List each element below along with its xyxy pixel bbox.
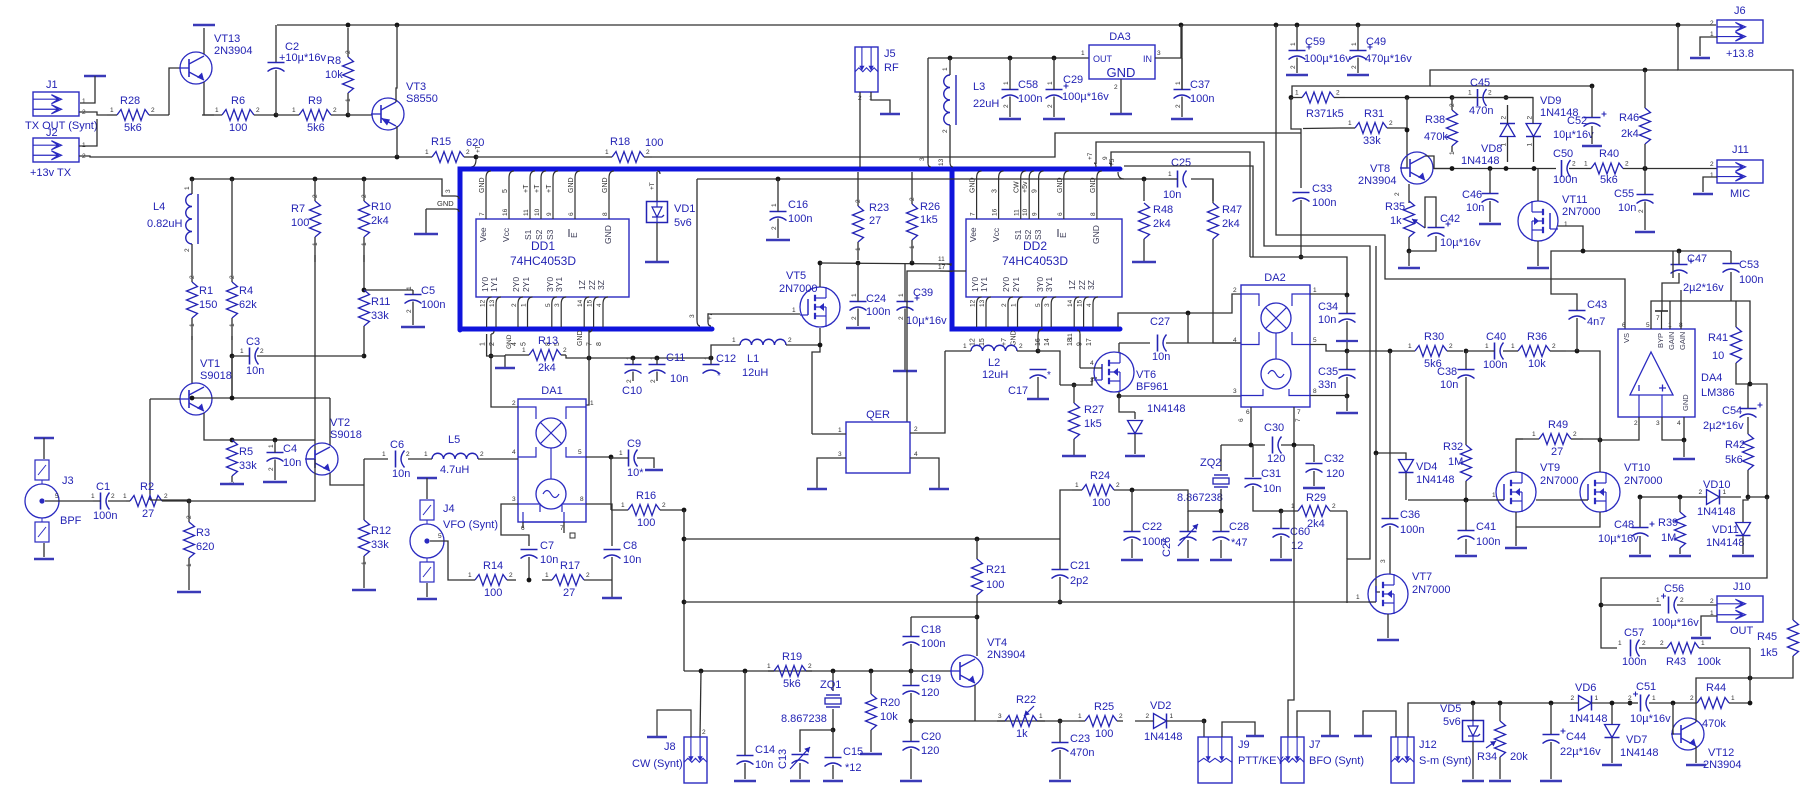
wire C33 down — [1300, 200, 1302, 257]
svg-text:2: 2 — [1642, 640, 1646, 647]
svg-text:1: 1 — [621, 502, 625, 509]
svg-text:S-m (Synt): S-m (Synt) — [1419, 755, 1472, 767]
svg-text:R7: R7 — [291, 203, 305, 215]
DD2 pin 13 number — [979, 299, 986, 307]
ground R3 — [177, 591, 201, 593]
wire R41 top — [1735, 301, 1737, 327]
diode VD3 — [1128, 403, 1186, 434]
label C10 — [622, 385, 642, 397]
svg-text:10µ*16v: 10µ*16v — [906, 315, 947, 327]
pin J8 2 — [702, 729, 706, 736]
resistor R18 — [605, 136, 652, 163]
wire GND into bus left — [426, 208, 455, 210]
wire C20 top — [910, 721, 912, 741]
svg-text:3: 3 — [512, 496, 516, 503]
crystal ZQ2 — [1177, 457, 1229, 504]
svg-text:+7: +7 — [1001, 338, 1008, 346]
svg-text:1: 1 — [851, 293, 858, 297]
ground J4 bottom — [417, 598, 437, 600]
svg-text:5v6: 5v6 — [674, 217, 692, 229]
transistor VT5 — [779, 270, 840, 327]
junction rail179 x=364 — [362, 177, 367, 182]
svg-text:CW (Synt): CW (Synt) — [632, 758, 683, 770]
svg-text:R1: R1 — [199, 285, 213, 297]
wire DA3 IN — [1155, 25, 1181, 58]
svg-text:L3: L3 — [973, 81, 985, 93]
pin C56 1 — [1656, 597, 1660, 604]
svg-text:R38: R38 — [1425, 114, 1445, 126]
svg-text:15: 15 — [587, 299, 594, 307]
svg-text:+T: +T — [534, 184, 541, 193]
svg-text:27: 27 — [563, 587, 575, 599]
label PTT/KEY — [1238, 755, 1285, 767]
wire VT6 source to VD3 — [1119, 396, 1135, 412]
svg-text:10n: 10n — [1152, 351, 1170, 363]
pin J11 1 — [1710, 172, 1714, 179]
svg-text:100µ*16v: 100µ*16v — [1304, 53, 1351, 65]
svg-text:14: 14 — [577, 299, 584, 307]
svg-text:C10: C10 — [622, 385, 642, 397]
svg-text:C31: C31 — [1261, 468, 1281, 480]
trimmer arrow R22 — [1024, 706, 1034, 716]
inductor L4 — [147, 179, 198, 260]
capacitor C58 — [1002, 58, 1043, 117]
pin DA3 1 — [1081, 50, 1085, 57]
svg-text:150: 150 — [199, 299, 217, 311]
diode VD1 zener — [647, 202, 696, 230]
resistor R7 — [291, 179, 321, 262]
net GND R13 — [506, 334, 513, 349]
svg-text:R42: R42 — [1725, 439, 1745, 451]
resistor R34 trimmer — [1495, 721, 1506, 757]
wire rail to R35 area — [1276, 25, 1625, 329]
label J11 — [1732, 144, 1749, 156]
svg-text:2µ2*16v: 2µ2*16v — [1683, 282, 1724, 294]
svg-text:100n: 100n — [1190, 93, 1214, 105]
wire VT1 emitter — [204, 413, 232, 440]
svg-text:2: 2 — [1233, 287, 1237, 294]
junction C47 top — [1677, 249, 1682, 254]
svg-text:8: 8 — [602, 212, 609, 216]
junction mic row x=1534 — [1532, 166, 1537, 171]
ground C37 — [1171, 118, 1193, 120]
diode VD2 — [1135, 700, 1198, 743]
DA4 pin 4 — [1677, 420, 1681, 427]
svg-text:1: 1 — [1710, 172, 1714, 179]
wire J1 pin2 to R28 — [79, 112, 107, 115]
label R43 val — [1697, 656, 1721, 668]
wire C12 to L1 — [711, 345, 722, 358]
pin C6 1 — [382, 451, 386, 458]
svg-text:S3: S3 — [545, 229, 555, 240]
wire C38 down to R32 — [1465, 377, 1467, 445]
svg-text:*: * — [1047, 370, 1051, 381]
wire C30 row — [1221, 444, 1265, 446]
capacitor C33 — [1293, 183, 1337, 209]
junction C33 bottom — [1299, 255, 1304, 260]
junction C52 top — [1590, 84, 1595, 89]
junction L4 top — [190, 177, 195, 182]
wire mute line y602 — [684, 601, 1347, 603]
junction R16 out — [682, 508, 687, 513]
svg-text:100: 100 — [986, 579, 1004, 591]
wire gnd stub — [425, 209, 427, 233]
pin VT6 3 — [1090, 377, 1094, 384]
wire DA4 pin8 stub — [1680, 290, 1682, 329]
junction R11 C3 — [362, 354, 367, 359]
capacitor C21 — [1052, 560, 1091, 587]
svg-text:1: 1 — [468, 572, 472, 579]
junction VD8 top — [1504, 95, 1509, 100]
svg-text:3: 3 — [1157, 50, 1161, 57]
bus DD2 left and bottom — [952, 171, 1120, 329]
capacitor C56 — [1661, 583, 1684, 614]
svg-text:10k: 10k — [1528, 358, 1546, 370]
ground J10 — [1691, 637, 1711, 639]
label R37 value — [1326, 108, 1344, 120]
capacitor C42 — [1428, 222, 1451, 237]
junction VD7 top — [1610, 701, 1615, 706]
svg-text:2: 2 — [646, 149, 650, 156]
capacitor C12 — [703, 353, 737, 374]
junction VD5 top — [1471, 701, 1476, 706]
DD1 net 2 below bus — [489, 342, 496, 346]
wire C2 to node — [275, 70, 277, 115]
svg-text:1Y1: 1Y1 — [979, 277, 989, 292]
svg-text:1: 1 — [1168, 171, 1172, 178]
wire R18 out to mic bias — [652, 133, 1301, 157]
DD2 net 15 below bus — [979, 338, 986, 346]
capacitor C60 — [1273, 526, 1311, 552]
svg-text:2: 2 — [1336, 90, 1340, 97]
svg-text:3: 3 — [689, 314, 696, 318]
label C48 — [1614, 519, 1634, 531]
DA4 pin7 bar terminal — [1655, 311, 1668, 329]
svg-text:VT4: VT4 — [987, 637, 1007, 649]
label TX OUT (Synt) — [25, 120, 98, 132]
wire C36 bottom — [1389, 526, 1391, 574]
transistor VT3 — [371, 81, 438, 130]
svg-text:C21: C21 — [1070, 560, 1090, 572]
svg-text:R15: R15 — [431, 136, 451, 148]
svg-text:1: 1 — [1290, 42, 1297, 46]
DD2 pin 4 number — [1086, 303, 1093, 307]
svg-text:2N7000: 2N7000 — [1540, 475, 1579, 487]
svg-text:J9: J9 — [1238, 739, 1250, 751]
label 5v6 — [1443, 716, 1461, 728]
svg-text:2k4: 2k4 — [1621, 128, 1639, 140]
svg-text:470k: 470k — [1424, 131, 1448, 143]
svg-text:R34: R34 — [1477, 751, 1497, 763]
svg-text:GND: GND — [437, 199, 454, 208]
resistor R31 — [1340, 108, 1407, 147]
junction R6 C2 — [274, 113, 279, 118]
junction pin3 pin4 — [1682, 438, 1687, 443]
svg-text:8.867238: 8.867238 — [1177, 492, 1223, 504]
capacitor C40 — [1466, 331, 1507, 371]
wire C15 bottom — [832, 765, 834, 779]
wire C21 top — [1059, 539, 1061, 569]
svg-text:1: 1 — [1170, 713, 1174, 720]
wire C53 top — [1730, 251, 1732, 263]
wire emitter to C6 — [363, 459, 365, 485]
junction VD6 out — [1628, 701, 1633, 706]
capacitor C41 — [1458, 521, 1501, 548]
svg-text:1: 1 — [425, 149, 429, 156]
capacitor C2 — [268, 41, 327, 72]
wire R39 top — [1679, 497, 1681, 512]
wire C3 to R10 col — [278, 355, 364, 357]
ground C8 R17 — [602, 597, 622, 599]
DA2 pin 6 — [1246, 409, 1250, 416]
capacitor C11 — [649, 352, 689, 385]
svg-text:+13v TX: +13v TX — [30, 167, 72, 179]
svg-text:VT5: VT5 — [786, 270, 806, 282]
wire 13.8 step to R37 — [1292, 70, 1678, 97]
wire R27 top — [1073, 385, 1075, 403]
wire VT8 emitter — [1408, 184, 1410, 203]
svg-text:12: 12 — [480, 299, 487, 307]
label J7 — [1309, 739, 1321, 751]
resistor R25 — [1078, 701, 1123, 740]
svg-text:5: 5 — [438, 533, 442, 540]
net label GND left of bus — [437, 199, 454, 208]
wire VT11 source — [1537, 241, 1539, 266]
pin J5 1 — [869, 95, 873, 102]
diode VD10 — [1686, 479, 1741, 518]
resistor R36 — [1503, 331, 1566, 370]
ground DA4 — [1673, 458, 1695, 460]
ground C9 — [645, 469, 663, 471]
ground C32 — [1303, 487, 1325, 489]
resistor R23 — [853, 172, 890, 260]
svg-text:R22: R22 — [1016, 694, 1036, 706]
net 9 y152 — [1102, 156, 1109, 160]
svg-text:10n: 10n — [392, 468, 410, 480]
svg-text:5v6: 5v6 — [1443, 716, 1461, 728]
svg-text:2: 2 — [1501, 116, 1508, 120]
junction C18 C19 — [909, 669, 914, 674]
DA2 pin 4 — [1233, 337, 1237, 344]
DD2 pin 4 bottom stub — [1093, 297, 1098, 327]
svg-text:GND: GND — [506, 334, 513, 349]
wire DA2 pin1 — [1310, 293, 1347, 295]
junction VD4 tap — [1374, 451, 1379, 456]
label 1N4148 — [1540, 107, 1579, 119]
svg-text:2: 2 — [82, 109, 86, 116]
ground R13 — [495, 367, 515, 369]
resistor R16 — [611, 490, 684, 529]
wire R43 col — [1749, 648, 1751, 704]
connector J5 RF — [855, 47, 899, 92]
svg-text:GND: GND — [602, 177, 609, 193]
svg-text:C40: C40 — [1486, 331, 1506, 343]
ground VT7 — [1377, 639, 1399, 641]
junction L1 VT5 source — [818, 343, 823, 348]
svg-text:100n: 100n — [93, 510, 117, 522]
svg-text:1: 1 — [1011, 303, 1018, 307]
DA4 pin 5 — [1646, 322, 1650, 329]
svg-text:2: 2 — [1394, 192, 1401, 196]
label VD4 — [1416, 461, 1437, 473]
resistor R9 — [276, 95, 348, 134]
wire VD4 top — [1376, 453, 1406, 459]
junction R32 bottom row — [1464, 498, 1469, 503]
svg-text:S3: S3 — [1033, 229, 1043, 240]
wire R37 to C33 — [1291, 98, 1301, 189]
svg-text:5k6: 5k6 — [307, 122, 325, 134]
junction DA1 pin2 R13 row — [489, 354, 494, 359]
capacitor C13 trimmer — [790, 747, 810, 769]
svg-text:2: 2 — [509, 572, 513, 579]
svg-text:BYP: BYP — [1656, 333, 1665, 348]
label J8 — [664, 741, 676, 753]
bus entry 3 x697 — [689, 314, 700, 326]
svg-text:C35: C35 — [1318, 366, 1338, 378]
svg-text:8: 8 — [580, 496, 584, 503]
junction VT12 base — [1671, 701, 1676, 706]
svg-text:2: 2 — [345, 50, 352, 54]
svg-text:1: 1 — [898, 293, 905, 297]
wire pin5 down to R16 — [610, 457, 612, 510]
wire y385 — [1060, 378, 1097, 385]
svg-text:10n: 10n — [755, 759, 773, 771]
wire C19 top — [910, 671, 912, 685]
label C42 val — [1440, 237, 1481, 249]
wire L3 down — [949, 130, 951, 162]
wire J8 col — [700, 671, 701, 737]
wire pin17 col down — [906, 272, 908, 422]
svg-text:C51: C51 — [1636, 681, 1656, 693]
wire C44 top — [1550, 703, 1552, 734]
wire C14 bottom — [744, 763, 746, 779]
bus entry DA1 pin2 — [491, 331, 494, 334]
wire VT2 emitter — [330, 473, 364, 485]
capacitor C34 — [1318, 301, 1356, 326]
resistor R46 — [1619, 108, 1651, 144]
svg-text:1N4148: 1N4148 — [1620, 747, 1659, 759]
svg-text:S9018: S9018 — [200, 370, 232, 382]
junction C48 top — [1638, 495, 1643, 500]
svg-text:R27: R27 — [1084, 404, 1104, 416]
svg-text:1: 1 — [521, 303, 528, 307]
net 11 DD2 left — [938, 256, 945, 263]
DD1 pin 2 number — [511, 303, 518, 307]
wire R37 out — [1345, 97, 1533, 99]
wire to VT2 base — [307, 440, 315, 459]
svg-text:9: 9 — [546, 212, 553, 216]
resistor R38 — [1424, 97, 1458, 155]
svg-text:4: 4 — [1090, 360, 1094, 367]
resistor R47 — [1208, 203, 1243, 239]
DD2 pin 15 bottom stub — [1084, 297, 1089, 327]
resistor R20 — [866, 694, 901, 730]
svg-text:1: 1 — [345, 98, 352, 102]
wire DA4 pin5 net — [1651, 301, 1750, 384]
wire DA1 pin6 stub — [522, 522, 524, 528]
wire J3 top plug — [43, 438, 45, 459]
DD1 net 1 below bus — [480, 342, 487, 346]
ground C49 — [1347, 74, 1369, 76]
svg-text:2: 2 — [1116, 482, 1120, 489]
svg-text:1: 1 — [1047, 81, 1054, 85]
IC DA4 LM386 — [1618, 329, 1695, 417]
svg-text:1: 1 — [1356, 594, 1360, 601]
svg-text:GND: GND — [1681, 394, 1690, 411]
svg-text:R14: R14 — [483, 560, 503, 572]
label C53 — [1739, 259, 1759, 271]
svg-text:J7: J7 — [1309, 739, 1321, 751]
ground C60 — [1270, 559, 1292, 561]
label +13.8 — [1726, 48, 1754, 60]
wire J11 pin1 gnd — [1703, 177, 1717, 192]
wire DA2 pin5 — [1310, 345, 1347, 352]
svg-text:33n: 33n — [1318, 379, 1336, 391]
svg-text:1: 1 — [1003, 81, 1010, 85]
pin J5 2 — [858, 95, 862, 102]
svg-text:R13: R13 — [538, 335, 558, 347]
DD1 pin 1 bottom stub — [528, 297, 533, 327]
capacitor C15 — [825, 746, 864, 774]
svg-text:R2: R2 — [140, 481, 154, 493]
svg-text:6: 6 — [1238, 418, 1245, 422]
diode VD5 zener — [1463, 703, 1484, 742]
svg-text:+T: +T — [649, 182, 656, 190]
capacitor C7 — [521, 540, 559, 566]
svg-text:10n: 10n — [1440, 379, 1458, 391]
svg-text:2N3904: 2N3904 — [214, 45, 253, 57]
svg-text:C7: C7 — [540, 540, 554, 552]
IC DA2 mixer — [1241, 272, 1310, 407]
junction C44 top — [1549, 701, 1554, 706]
svg-text:20k: 20k — [1510, 751, 1528, 763]
junction mic row x=1506 — [1504, 166, 1509, 171]
wire C43 top — [1551, 251, 1583, 310]
label 1N4148 — [1461, 155, 1500, 167]
svg-text:2: 2 — [489, 342, 496, 346]
wire QER pin1 — [812, 433, 846, 435]
svg-text:5: 5 — [502, 189, 509, 193]
svg-text:VT8: VT8 — [1370, 163, 1390, 175]
svg-text:VD6: VD6 — [1575, 682, 1596, 694]
wire DA2 pin6 — [1250, 407, 1252, 445]
wire R13 gnd stub — [504, 355, 506, 367]
junction rail179 x=232 — [230, 177, 235, 182]
svg-text:1M: 1M — [1448, 456, 1463, 468]
wire IF node y263 — [820, 263, 952, 264]
DD1 pin 7 top stub — [479, 171, 491, 219]
junction VT1 emitter R5 — [230, 438, 235, 443]
svg-text:620: 620 — [196, 541, 214, 553]
svg-text:1: 1 — [1485, 343, 1489, 350]
capacitor C54 — [1740, 403, 1763, 418]
svg-text:2: 2 — [229, 275, 236, 279]
svg-text:13: 13 — [489, 299, 496, 307]
svg-text:4: 4 — [1086, 303, 1093, 307]
svg-text:2: 2 — [111, 493, 115, 500]
ground J8 pin1 — [647, 736, 667, 738]
svg-text:1k5: 1k5 — [1084, 418, 1102, 430]
junction y58 x=1054 — [1052, 56, 1057, 61]
wire C18 bottom — [910, 644, 912, 671]
bus entry 3 left — [445, 189, 459, 199]
label VD8 — [1481, 143, 1502, 155]
label J6 — [1734, 5, 1746, 17]
DD1 pin 5 bottom stub — [552, 297, 557, 327]
svg-text:100k: 100k — [1697, 656, 1721, 668]
wire VT2 collector up — [329, 398, 331, 445]
junction C12 — [709, 356, 714, 361]
